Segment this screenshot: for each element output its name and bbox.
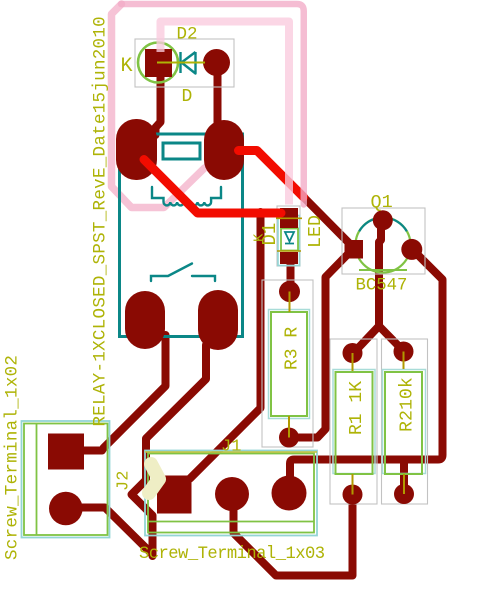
J2 pad2 round [49, 492, 83, 526]
D1 LED symbol teal [285, 232, 294, 244]
svg-text:D: D [182, 87, 193, 107]
svg-text:D2: D2 [177, 25, 198, 45]
J1 pad1 square [157, 476, 192, 514]
R3 courtyard [262, 280, 313, 447]
R2 courtyard [382, 339, 428, 504]
Q1 flat chord [359, 269, 407, 271]
wire B.Cu relay pad3 to J2 pad1 [66, 335, 166, 451]
svg-text:Screw_Terminal_1x03: Screw_Terminal_1x03 [139, 545, 325, 564]
wire B.Cu Q1 pad2 to R1 R2 tops Y [353, 222, 404, 354]
svg-text:Screw_Terminal_1x02: Screw_Terminal_1x02 [3, 355, 23, 560]
R3 stub top [289, 292, 291, 313]
relay K1 pad2 [204, 120, 244, 180]
highlight beige blob [149, 464, 159, 493]
D2 pin line olive [157, 62, 205, 64]
J1 inner line green [148, 521, 314, 523]
J1 top yellow line [145, 451, 317, 453]
wire B.Cu junction to Q1 pad1 [302, 196, 349, 244]
svg-text:R1 1K: R1 1K [347, 381, 367, 435]
svg-text:D1: D1 [259, 223, 281, 246]
Q1 pad1 square [345, 240, 364, 259]
D2 pad2 round A [203, 49, 230, 76]
D1 pad1 rect [280, 208, 298, 228]
R3 pad2 [279, 428, 299, 448]
R2 stub bottom [403, 474, 405, 494]
relay K1 outline pink top right [121, 4, 304, 205]
wire B.Cu Q1 pad3 long right route to J1 pad3 [290, 252, 443, 480]
J2 inner line green [36, 424, 38, 536]
relay K1 pad4 [198, 290, 238, 350]
relay K1 silkscreen body teal [120, 134, 243, 337]
D1 pin line 2 [277, 250, 301, 252]
R3 body outline [271, 312, 307, 416]
svg-text:LED: LED [306, 215, 326, 248]
svg-text:K: K [121, 55, 133, 78]
R1 body outline teal [333, 370, 375, 474]
D2 green circle [138, 43, 178, 83]
wire B.Cu branch to R2 pad2 [400, 460, 408, 486]
relay K1 switch symbol [151, 264, 215, 282]
wire B.Cu junction to J1 pad2 [190, 212, 261, 479]
wire F.Cu red relay pad2 to junction [239, 151, 304, 198]
D1 outline light teal [278, 216, 300, 266]
J1 pad3 round [272, 476, 307, 511]
relay K1 pad1 [116, 119, 157, 180]
wire B.Cu relay pad4 down to J1 pad1 area [132, 345, 207, 556]
wire B.Cu D2 pad1 to relay pad1 [156, 64, 161, 135]
relay K1 pad3 [125, 291, 165, 349]
R1 pad2 [343, 485, 363, 505]
J2 outer box light teal [22, 421, 110, 538]
J1 pad2 round [215, 477, 249, 511]
relay K1 coil symbol [152, 187, 221, 205]
svg-text:R210k: R210k [398, 377, 418, 432]
R1 pad1 [343, 343, 363, 363]
Q1 body circle green [356, 218, 411, 273]
R2 pad1 [394, 342, 414, 362]
D2 pad1 square K [145, 49, 172, 77]
D2 diode symbol teal [181, 52, 196, 74]
R2 body outline teal [383, 370, 426, 474]
relay K1 inner rectangle teal [163, 143, 200, 159]
relay K1 courtyard outline pink outer left [112, 4, 205, 208]
D1 body green rect [281, 229, 298, 251]
wire B.Cu R3 pad2 to Q1 pad1 [291, 254, 348, 438]
wire B.Cu J1 pad2 to R1 pad2 [234, 497, 353, 576]
D1 courtyard [277, 206, 300, 266]
D2 courtyard [135, 39, 234, 87]
svg-text:J2: J2 [115, 471, 134, 491]
Q1 pad2 round [373, 210, 393, 230]
D1 pin line [276, 217, 302, 219]
D1 pad2 rect [280, 252, 298, 264]
J2 body green rect [24, 424, 108, 536]
relay K1 fab outline pink inner [161, 22, 290, 205]
R1 stub bottom [352, 474, 354, 495]
R1 stub top [352, 353, 354, 371]
J2 pad1 square [48, 434, 84, 470]
R3 stub bottom [288, 416, 290, 438]
R1 body outline [336, 372, 373, 474]
Q1 body arc teal [359, 218, 407, 232]
svg-text:R3 R: R3 R [283, 327, 303, 370]
wire F.Cu red relay pad1 to D1 pad1 [144, 160, 281, 214]
svg-text:Q1: Q1 [371, 192, 393, 213]
R3 body outline teal [269, 310, 310, 419]
R3 pad1 [279, 281, 300, 302]
R2 pad2 [394, 484, 414, 504]
R2 body outline [385, 372, 422, 474]
J1 body green rect [148, 454, 314, 533]
svg-text:J1: J1 [221, 438, 241, 457]
wire B.Cu J2 pad2 stub to merge [66, 508, 153, 555]
J1 outer box light teal [145, 451, 317, 536]
svg-text:RELAY-1XCLOSED_SPST_RevE_Date1: RELAY-1XCLOSED_SPST_RevE_Date15jun2010 [91, 16, 111, 426]
Q1 courtyard [342, 208, 425, 274]
Q1 pad3 round [401, 239, 422, 260]
R2 stub top [403, 352, 405, 370]
svg-text:BC547: BC547 [356, 277, 408, 296]
wire B.Cu D1 pad2 to R3 pad1 [287, 262, 295, 284]
R1 courtyard [330, 339, 377, 504]
wire B.Cu D2 pad2 to relay pad2 [214, 62, 222, 140]
